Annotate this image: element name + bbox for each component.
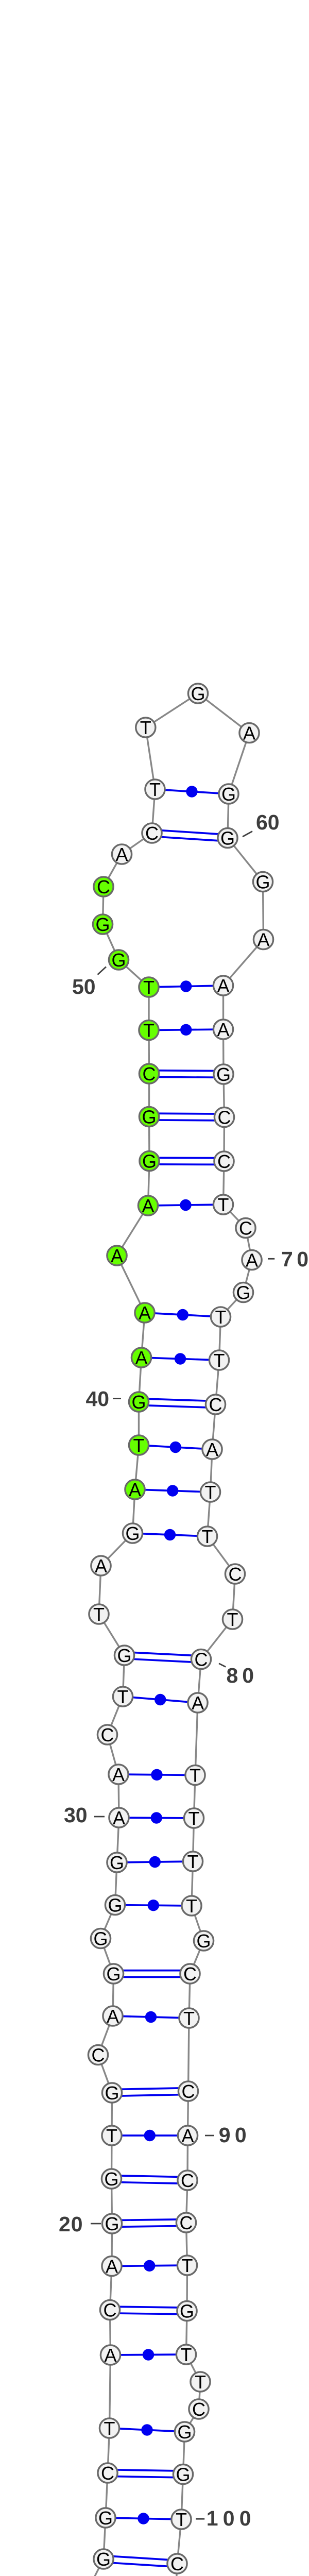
nucleotide T22: [102, 2125, 122, 2146]
label 50: [72, 967, 106, 999]
wire backbone 41-42: [142, 1313, 145, 1358]
nucleotide T68: [213, 1194, 233, 1215]
svg-text:A: A: [113, 1807, 125, 1828]
nucleotide C47: [139, 1063, 159, 1084]
nucleotide G23: [102, 2082, 122, 2104]
nucleotide A64: [213, 1019, 233, 1040]
base pair G29·T84 (wobble/AT: line with dot): [117, 1856, 193, 1868]
base pair A25·T88 (wobble/AT: line with dot): [113, 2011, 189, 2023]
nucleotide A44: [138, 1195, 158, 1216]
svg-text:G: G: [106, 1963, 121, 1985]
wire backbone 85-86: [192, 1906, 204, 1941]
wire backbone 16-17: [110, 2355, 111, 2428]
base pair G21·C91 (WC double line): [111, 2176, 187, 2184]
svg-text:90: 90: [219, 2123, 251, 2147]
svg-text:G: G: [142, 1150, 157, 1172]
wire backbone 25-26: [113, 1974, 114, 2016]
label 30: [64, 1803, 105, 1827]
base pair T48·A64 (wobble/AT: line with dot): [149, 1024, 224, 1036]
svg-text:G: G: [221, 784, 236, 805]
svg-text:C: C: [182, 2081, 195, 2102]
svg-text:A: A: [111, 1245, 123, 1266]
svg-text:T: T: [143, 1020, 154, 1041]
wire backbone 94-95: [186, 2311, 187, 2355]
nucleotide T73: [209, 1350, 229, 1371]
svg-text:100: 100: [207, 2506, 256, 2530]
svg-text:T: T: [227, 1609, 238, 1630]
base pair G13·C101 (WC double line): [104, 2556, 178, 2567]
svg-text:T: T: [186, 1895, 197, 1917]
svg-text:C: C: [104, 2299, 117, 2320]
base pair G23·C89 (WC double line): [112, 2088, 188, 2096]
base pair A17·T95 (wobble/AT: line with dot): [111, 2349, 186, 2360]
wire backbone 74-75: [212, 1404, 216, 1449]
svg-text:G: G: [93, 1928, 108, 1949]
nucleotide T79: [222, 1609, 242, 1630]
nucleotide T55: [145, 779, 165, 800]
svg-text:A: A: [243, 722, 255, 743]
wire backbone 96-97: [199, 2382, 200, 2409]
svg-text:T: T: [182, 2255, 193, 2276]
svg-text:T: T: [133, 1435, 145, 1456]
base pair C47·G65 (WC double line): [149, 1071, 224, 1078]
svg-text:80: 80: [227, 1664, 259, 1687]
svg-text:T: T: [117, 1686, 129, 1707]
label 90: [205, 2123, 251, 2147]
base pair G37·T77 (wobble/AT: line with dot): [133, 1529, 208, 1540]
nucleotide G37: [123, 1523, 142, 1544]
nucleotide A70: [242, 1249, 262, 1270]
wire backbone 71-72: [221, 1293, 244, 1317]
base pair G46·C66 (WC double line): [149, 1113, 225, 1121]
wire backbone 39-40: [138, 1402, 140, 1445]
wire backbone 64-65: [222, 1029, 225, 1074]
wire backbone 42-43: [117, 1256, 145, 1313]
svg-text:G: G: [255, 871, 270, 892]
label 60: [243, 810, 280, 837]
nucleotide C24: [88, 2044, 108, 2065]
wire backbone 97-98: [185, 2409, 199, 2432]
nucleotide G71: [233, 1282, 253, 1303]
svg-text:40: 40: [86, 1387, 110, 1411]
wire backbone 38-39: [135, 1445, 139, 1489]
wire backbone 17-18: [110, 2310, 111, 2355]
wire backbone 51-52: [103, 887, 104, 924]
wire backbone 40-41: [139, 1358, 142, 1402]
svg-text:A: A: [257, 929, 269, 950]
wire backbone 36-37: [101, 1533, 133, 1566]
base pair G20·C92 (WC double line): [112, 2219, 186, 2227]
svg-text:G: G: [131, 1392, 146, 1413]
nucleotide C74: [205, 1394, 225, 1415]
wire backbone 101-102: [174, 2564, 178, 2576]
svg-text:G: G: [236, 1282, 250, 1303]
wire backbone 52-53: [104, 854, 122, 887]
wire backbone 50-51: [103, 924, 119, 960]
svg-text:G: G: [177, 2421, 192, 2443]
nucleotide G59: [219, 784, 238, 805]
nucleotide A53: [112, 844, 131, 865]
nucleotide C32: [97, 1724, 117, 1745]
wire backbone 48-49: [148, 987, 149, 1030]
nucleotide T76: [200, 1482, 220, 1503]
wire backbone 28-29: [115, 1862, 117, 1905]
wire backbone 22-23: [111, 2093, 113, 2136]
wire backbone 19-20: [111, 2224, 113, 2266]
svg-text:C: C: [209, 1394, 222, 1415]
wire backbone 59-60: [228, 794, 229, 838]
svg-text:C: C: [97, 876, 110, 897]
base pair C54·G60 (WC double line): [152, 830, 228, 841]
svg-text:A: A: [106, 2256, 118, 2277]
wire backbone 53-54: [122, 833, 152, 854]
wire backbone 12-13: [84, 2559, 104, 2576]
nucleotide T77: [197, 1526, 217, 1547]
nucleotide G46: [139, 1106, 159, 1127]
wire backbone 45-46: [148, 1117, 150, 1161]
nucleotide T85: [182, 1895, 201, 1917]
wire backbone 69-70: [246, 1228, 252, 1260]
nucleotide T93: [177, 2255, 197, 2276]
svg-text:T: T: [104, 2418, 115, 2439]
svg-text:G: G: [191, 683, 205, 704]
svg-text:A: A: [142, 1195, 154, 1216]
wire backbone 20-21: [112, 2179, 112, 2224]
nucleotide G61: [253, 871, 272, 892]
svg-text:T: T: [187, 1851, 199, 1872]
nucleotide G51: [93, 914, 112, 935]
wire backbone 35-36: [99, 1566, 101, 1614]
svg-text:G: G: [105, 2213, 119, 2234]
svg-text:C: C: [192, 2399, 205, 2420]
svg-text:A: A: [95, 1555, 107, 1577]
wire backbone 83-84: [193, 1818, 194, 1861]
svg-text:T: T: [93, 1604, 105, 1625]
svg-text:G: G: [98, 2507, 113, 2529]
nucleotide C80: [191, 1649, 211, 1670]
nucleotide A90: [178, 2125, 197, 2146]
base pair G40·C74 (WC double line): [139, 1399, 215, 1408]
wire backbone 31-32: [108, 1735, 119, 1774]
wire backbone 77-78: [208, 1536, 235, 1574]
svg-text:T: T: [215, 1307, 227, 1328]
nucleotide C91: [178, 2170, 197, 2191]
svg-text:G: G: [117, 1645, 131, 1666]
label 40: [86, 1387, 122, 1411]
base pair T49·A63 (wobble/AT: line with dot): [149, 980, 224, 992]
nucleotide A31: [109, 1764, 128, 1785]
svg-text:A: A: [139, 1302, 151, 1324]
wire backbone 73-74: [216, 1360, 219, 1404]
nucleotide C101: [167, 2553, 187, 2574]
wire backbone 54-55: [152, 789, 155, 833]
wire backbone 18-19: [110, 2266, 112, 2310]
nucleotide T48: [139, 1020, 159, 1041]
base pair G14·T100 (wobble/AT: line with dot): [106, 2513, 181, 2524]
wire backbone 92-93: [186, 2223, 187, 2265]
svg-text:A: A: [217, 975, 229, 996]
svg-text:C: C: [145, 823, 159, 844]
base pair T16·G98 (wobble/AT: line with dot): [110, 2424, 185, 2435]
base pair A38·T76 (wobble/AT: line with dot): [135, 1485, 211, 1496]
svg-text:T: T: [195, 2371, 206, 2393]
nucleotide G45: [140, 1150, 159, 1172]
nucleotide C18: [100, 2299, 119, 2320]
svg-text:C: C: [217, 1151, 231, 1172]
svg-text:T: T: [202, 1526, 213, 1547]
nucleotide C92: [176, 2212, 196, 2233]
nucleotide T33: [113, 1686, 132, 1707]
svg-text:C: C: [183, 1963, 197, 1985]
svg-text:30: 30: [64, 1803, 88, 1827]
svg-text:T: T: [149, 779, 161, 800]
nucleotide A58: [239, 722, 259, 743]
svg-text:T: T: [181, 2344, 192, 2365]
svg-text:G: G: [220, 827, 235, 849]
nucleotide G27: [91, 1928, 110, 1949]
nucleotide G13: [94, 2549, 113, 2570]
svg-text:G: G: [176, 2464, 190, 2485]
nucleotide A42: [135, 1302, 154, 1324]
wire backbone 23-24: [98, 2055, 112, 2093]
nucleotide T88: [179, 2008, 199, 2029]
svg-text:T: T: [183, 2008, 195, 2029]
nucleotide C67: [214, 1151, 234, 1172]
wire backbone 89-90: [188, 2091, 188, 2136]
nucleotide T84: [183, 1851, 202, 1872]
svg-text:G: G: [180, 2300, 194, 2321]
nucleotide C89: [178, 2081, 198, 2102]
nucleotide T56: [136, 717, 156, 738]
nucleotide A43: [107, 1245, 127, 1266]
svg-text:A: A: [181, 2125, 194, 2146]
base pair G45·C67 (WC double line): [149, 1158, 224, 1164]
wire backbone 81-82: [195, 1703, 198, 1775]
wire backbone 13-14: [104, 2518, 106, 2559]
svg-text:G: G: [95, 914, 110, 935]
wire backbone 26-27: [101, 1939, 114, 1974]
nucleotide T35: [89, 1604, 109, 1625]
nucleotide G86: [194, 1930, 213, 1952]
svg-text:T: T: [190, 1765, 201, 1786]
nucleotide G29: [107, 1852, 127, 1873]
svg-text:C: C: [143, 1063, 156, 1084]
nucleotide C78: [225, 1564, 245, 1585]
base pair C15·G99 (WC double line): [108, 2470, 183, 2478]
label 70: [268, 1247, 309, 1271]
svg-text:C: C: [101, 2463, 114, 2484]
wire backbone 34-35: [99, 1614, 125, 1655]
nucleotide T83: [184, 1808, 203, 1829]
wire backbone 70-71: [244, 1260, 252, 1293]
nucleotide G28: [105, 1894, 125, 1916]
wire backbone 60-61: [228, 838, 263, 882]
wire backbone 46-47: [148, 1074, 150, 1117]
svg-text:60: 60: [256, 810, 280, 834]
svg-text:C: C: [239, 1217, 252, 1239]
nucleotide T72: [211, 1307, 230, 1328]
label 100: [196, 2506, 256, 2530]
base pair G34·C80 (WC double line): [124, 1652, 201, 1663]
base pair A41·T73 (wobble/AT: line with dot): [142, 1353, 219, 1364]
base pair A31·T82 (wobble/AT: line with dot): [118, 1769, 195, 1781]
svg-text:T: T: [188, 1808, 200, 1829]
wire backbone 90-91: [186, 2136, 188, 2180]
label 20: [59, 2212, 101, 2236]
nucleotide T39: [129, 1435, 148, 1456]
nucleotide T49: [139, 977, 159, 998]
wire backbone 32-33: [108, 1697, 123, 1735]
base pair A44·T68 (wobble/AT: line with dot): [148, 1199, 224, 1211]
nucleotide G98: [175, 2421, 194, 2443]
svg-text:C: C: [180, 2212, 193, 2233]
wire backbone 37-38: [133, 1489, 135, 1533]
nucleotide C54: [142, 823, 162, 844]
nucleotide A19: [102, 2256, 122, 2277]
nucleotide G65: [214, 1064, 233, 1085]
nucleotide C66: [214, 1107, 234, 1128]
nucleotide T82: [185, 1765, 205, 1786]
nucleotide G20: [102, 2213, 122, 2234]
svg-text:G: G: [110, 1852, 124, 1873]
wire backbone 58-59: [229, 733, 249, 794]
base pair T33·A81 (wobble/AT: line with dot): [123, 1694, 198, 1705]
svg-text:G: G: [142, 1106, 156, 1127]
wire backbone 75-76: [211, 1449, 213, 1492]
svg-text:A: A: [129, 1479, 141, 1500]
wire backbone 55-56: [146, 727, 155, 789]
nucleotide G50: [109, 950, 128, 971]
wire backbone 57-58: [198, 693, 250, 733]
svg-text:T: T: [176, 2509, 187, 2530]
wire backbone 100-101: [177, 2519, 181, 2564]
nucleotide G26: [104, 1963, 123, 1985]
wire backbone 33-34: [123, 1655, 125, 1697]
nucleotide G14: [96, 2507, 115, 2529]
svg-text:T: T: [106, 2125, 117, 2146]
nucleotide T100: [171, 2509, 191, 2530]
svg-text:G: G: [216, 1064, 231, 1085]
wire backbone 87-88: [189, 1974, 190, 2018]
nucleotide A17: [100, 2345, 120, 2366]
svg-text:A: A: [112, 1764, 125, 1785]
svg-text:T: T: [218, 1194, 229, 1215]
wire backbone 93-94: [186, 2265, 188, 2311]
wire backbone 88-89: [188, 2018, 190, 2091]
nucleotide G34: [114, 1645, 134, 1666]
svg-text:G: G: [196, 1930, 211, 1952]
base pair T39·A75 (wobble/AT: line with dot): [139, 1442, 213, 1453]
base pair A42·T72 (wobble/AT: line with dot): [145, 1309, 221, 1320]
wire backbone 65-66: [224, 1074, 225, 1117]
nucleotide A36: [91, 1555, 111, 1577]
wire backbone 43-44: [117, 1206, 148, 1256]
nucleotide C69: [236, 1217, 255, 1239]
svg-text:50: 50: [72, 975, 96, 998]
base pair G26·C87 (WC double line): [114, 1971, 191, 1977]
svg-text:T: T: [143, 977, 154, 998]
svg-text:A: A: [135, 1347, 147, 1368]
label 80: [219, 1664, 258, 1687]
svg-text:C: C: [170, 2553, 184, 2574]
svg-text:A: A: [107, 2006, 119, 2027]
nucleotide C52: [94, 876, 113, 897]
svg-text:C: C: [181, 2170, 194, 2191]
wire backbone 66-67: [223, 1117, 225, 1162]
wire backbone 84-85: [192, 1861, 193, 1906]
wire backbone 62-63: [224, 940, 264, 986]
nucleotide C87: [180, 1963, 200, 1985]
svg-text:C: C: [229, 1564, 242, 1585]
wire backbone 68-69: [224, 1205, 246, 1228]
nucleotide C97: [189, 2399, 209, 2420]
wire backbone 30-31: [118, 1774, 119, 1818]
wire backbone 80-81: [198, 1659, 201, 1703]
wire backbone 67-68: [224, 1161, 225, 1205]
wire backbone 99-100: [181, 2475, 183, 2520]
svg-text:G: G: [105, 2082, 119, 2104]
svg-text:C: C: [218, 1107, 231, 1128]
nucleotide T96: [191, 2371, 210, 2393]
base pair T22·A90 (wobble/AT: line with dot): [112, 2130, 188, 2141]
nucleotide A81: [188, 1692, 208, 1714]
wire backbone 79-80: [201, 1619, 233, 1659]
svg-text:C: C: [92, 2044, 105, 2065]
nucleotide A30: [109, 1807, 129, 1828]
svg-text:A: A: [246, 1249, 258, 1270]
nucleotide T16: [99, 2418, 119, 2439]
svg-text:T: T: [140, 717, 151, 738]
wire backbone 15-16: [108, 2428, 110, 2473]
svg-text:C: C: [101, 1724, 114, 1745]
nucleotide A38: [125, 1479, 145, 1500]
svg-text:T: T: [205, 1482, 216, 1503]
nucleotide G60: [218, 827, 237, 849]
svg-text:G: G: [96, 2549, 111, 2570]
wire backbone 49-50: [119, 960, 149, 987]
wire backbone 91-92: [186, 2180, 188, 2223]
base pair T55·G59 (wobble/AT: line with dot): [155, 786, 229, 797]
wire backbone 95-96: [186, 2354, 201, 2382]
wire backbone 27-28: [101, 1905, 115, 1939]
svg-text:G: G: [111, 950, 126, 971]
svg-text:A: A: [115, 844, 128, 865]
base pair C18·G94 (WC double line): [110, 2307, 187, 2314]
nucleotide A62: [253, 929, 273, 950]
base pair A19·T93 (wobble/AT: line with dot): [112, 2260, 187, 2272]
nucleotide G57: [188, 683, 208, 704]
base pair G28·T85 (wobble/AT: line with dot): [115, 1900, 192, 1911]
wire backbone 24-25: [98, 2016, 113, 2055]
nucleotide C15: [98, 2463, 117, 2484]
nucleotide G40: [129, 1392, 148, 1413]
svg-text:70: 70: [281, 1247, 309, 1271]
nucleotide T95: [176, 2344, 196, 2365]
svg-text:A: A: [206, 1439, 218, 1460]
base pair A30·T83 (wobble/AT: line with dot): [119, 1812, 194, 1823]
nucleotide A63: [213, 975, 233, 996]
svg-text:20: 20: [59, 2212, 83, 2236]
svg-text:T: T: [214, 1350, 225, 1371]
wire backbone 63-64: [222, 986, 224, 1029]
wire backbone 44-45: [148, 1161, 150, 1206]
svg-text:G: G: [125, 1523, 140, 1544]
wire backbone 86-87: [190, 1941, 204, 1974]
nucleotide A25: [103, 2006, 123, 2027]
nucleotide G21: [101, 2168, 121, 2190]
nucleotide A75: [202, 1439, 222, 1460]
wire backbone 56-57: [146, 693, 198, 727]
